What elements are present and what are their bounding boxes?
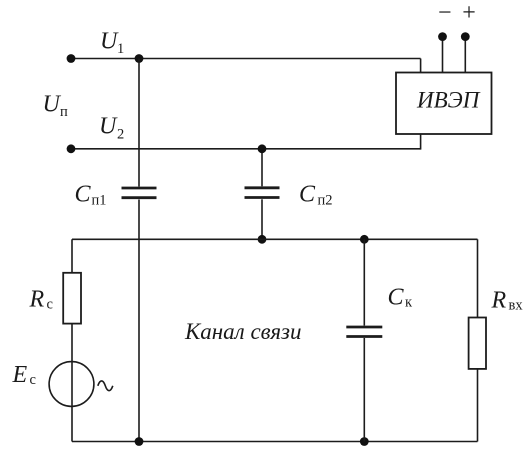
svg-text:с: с <box>30 372 36 388</box>
wire plus stub <box>464 37 466 73</box>
wire Ck branch lower <box>363 338 365 442</box>
svg-text:1: 1 <box>117 41 124 57</box>
wire left rail lower (through Ec) <box>71 324 73 442</box>
svg-text:п2: п2 <box>318 193 333 209</box>
svg-text:Канал связи: Канал связи <box>184 319 302 344</box>
junction node Cp2/U2 <box>258 144 267 153</box>
wire right rail upper (to Rvx) <box>477 239 479 317</box>
capacitor Ck <box>346 327 382 337</box>
resistor Rvx <box>469 318 486 369</box>
terminal dot U1 <box>67 54 76 63</box>
svg-text:с: с <box>47 297 53 313</box>
wire bus1 vertical upper (through Cp1) <box>138 59 140 187</box>
capacitor Cp1 <box>122 188 157 198</box>
terminal dot U2 <box>67 144 76 153</box>
svg-text:п1: п1 <box>92 193 107 209</box>
junction node Cp2/channel-top <box>258 235 267 244</box>
source Ec circle <box>49 362 94 407</box>
svg-text:−: − <box>438 0 452 26</box>
svg-text:к: к <box>405 295 413 311</box>
wire bus1 vertical lower <box>138 200 140 442</box>
wire bus2 vertical lower <box>261 199 263 239</box>
wire channel bottom rail <box>72 441 478 443</box>
svg-text:вх: вх <box>509 298 524 314</box>
svg-text:2: 2 <box>117 127 124 143</box>
ac tilde mark <box>98 381 113 391</box>
svg-text:R: R <box>491 288 507 314</box>
terminal dot plus <box>461 32 470 41</box>
wire right rail lower <box>477 369 479 442</box>
svg-text:E: E <box>12 362 28 388</box>
wire vertical riser into IVEP (x=420.6) <box>420 59 422 150</box>
svg-text:+: + <box>462 0 476 26</box>
junction node Ck/channel-top <box>360 235 369 244</box>
junction node bus1/bottom rail <box>135 437 144 446</box>
wire U2 horizontal bus <box>71 148 421 150</box>
wire U1 horizontal bus <box>71 58 421 60</box>
wire minus stub <box>442 37 444 73</box>
wire Ck branch upper <box>363 239 365 325</box>
wire bus2 vertical upper (Cp2 branch) <box>261 149 263 187</box>
resistor Rc <box>63 273 81 324</box>
svg-text:ИВЭП: ИВЭП <box>416 88 481 113</box>
svg-text:п: п <box>60 104 68 120</box>
wire left rail upper (to Rc) <box>71 239 73 272</box>
svg-text:U: U <box>99 114 118 140</box>
capacitor Cp2 <box>245 188 280 198</box>
svg-text:C: C <box>299 182 316 208</box>
power supply unit IVEP box <box>396 73 492 135</box>
svg-text:C: C <box>388 285 405 311</box>
terminal dot minus <box>438 32 447 41</box>
junction node U1/bus1 <box>135 54 144 63</box>
svg-text:R: R <box>29 287 45 313</box>
junction node Ck/bottom rail <box>360 437 369 446</box>
wire channel top rail <box>72 238 478 240</box>
svg-text:C: C <box>75 182 92 208</box>
svg-text:U: U <box>43 92 62 118</box>
